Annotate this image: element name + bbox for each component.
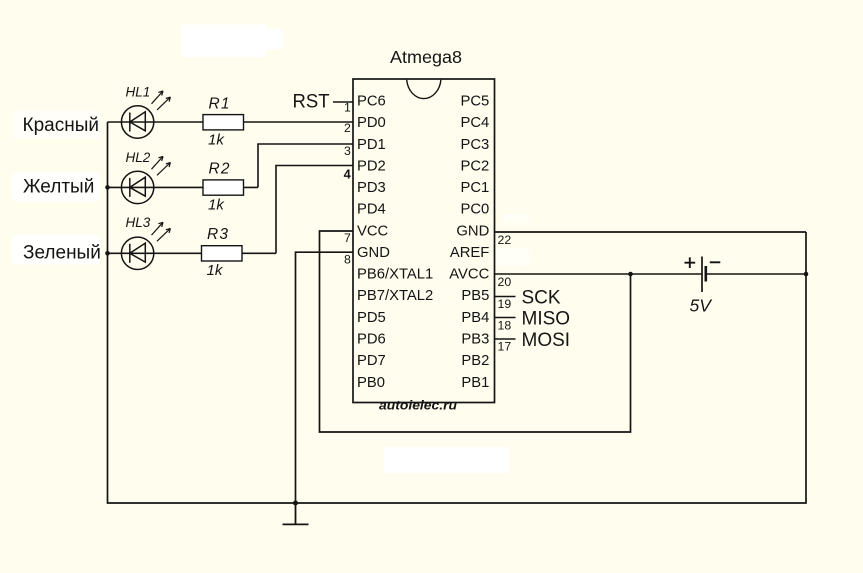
battery BT1 minus plate [704, 266, 707, 282]
svg-text:Желтый: Желтый [23, 177, 94, 198]
svg-text:PD6: PD6 [357, 332, 386, 348]
wire GND pin8 down to rail [296, 252, 354, 503]
svg-text:8: 8 [344, 252, 351, 266]
svg-text:PC5: PC5 [461, 94, 490, 110]
svg-text:22: 22 [498, 233, 512, 247]
svg-text:autoielec.ru: autoielec.ru [379, 399, 457, 413]
svg-text:Зеленый: Зеленый [23, 243, 101, 264]
LED HL3 [121, 222, 170, 269]
battery plus sign [685, 257, 696, 268]
svg-text:7: 7 [344, 231, 351, 245]
wire stub pin17 [495, 338, 516, 340]
svg-text:AVCC: AVCC [449, 267, 489, 283]
svg-text:PC2: PC2 [461, 158, 490, 174]
wire yellow riser to pin3 [258, 144, 353, 187]
svg-text:PB6/XTAL1: PB6/XTAL1 [357, 267, 433, 283]
svg-text:GND: GND [357, 245, 390, 261]
svg-text:5V: 5V [690, 296, 714, 316]
svg-text:PD0: PD0 [357, 115, 386, 131]
svg-text:Красный: Красный [23, 115, 99, 136]
resistor R1 [203, 115, 244, 130]
wire stub pin18 [495, 317, 516, 319]
svg-text:1k: 1k [207, 262, 224, 279]
svg-text:3: 3 [344, 144, 351, 158]
wire ground rail left+bottom+right [108, 122, 807, 503]
svg-text:HL2: HL2 [126, 150, 151, 165]
svg-text:SCK: SCK [522, 288, 561, 309]
IC notch [407, 80, 441, 99]
svg-text:17: 17 [498, 339, 512, 353]
svg-text:PD5: PD5 [357, 310, 386, 326]
svg-text:PD2: PD2 [357, 158, 386, 174]
svg-text:18: 18 [498, 318, 512, 332]
svg-text:PC4: PC4 [461, 115, 490, 131]
LED HL2 [121, 156, 170, 203]
wire GND pin22 to right rail [495, 231, 807, 233]
svg-text:PD7: PD7 [357, 353, 386, 369]
svg-text:PC3: PC3 [461, 137, 490, 153]
svg-text:R3: R3 [207, 226, 229, 243]
svg-text:PB7/XTAL2: PB7/XTAL2 [357, 288, 433, 304]
battery BT1 plus plate [701, 257, 703, 293]
svg-text:R2: R2 [209, 161, 231, 178]
svg-text:1k: 1k [208, 131, 225, 148]
wire red row LED1-R1-pin2 [108, 121, 354, 123]
svg-text:PC6: PC6 [357, 94, 386, 110]
svg-text:MISO: MISO [522, 309, 571, 330]
wire AVCC pin20 to battery [495, 273, 807, 275]
battery minus sign [710, 261, 721, 263]
svg-text:1k: 1k [208, 197, 225, 214]
svg-text:VCC: VCC [357, 223, 389, 239]
wire yellow row LED2-R2 [108, 186, 259, 188]
svg-text:GND: GND [456, 223, 489, 239]
wire stub pin19 [495, 296, 516, 298]
svg-text:RST: RST [293, 92, 330, 113]
wire green row LED3-R3 [108, 252, 277, 254]
svg-text:PC0: PC0 [461, 202, 490, 218]
svg-text:2: 2 [344, 121, 351, 135]
IC U1 body [353, 79, 495, 403]
svg-text:PB0: PB0 [357, 375, 385, 391]
junction dot rail/green [105, 251, 110, 256]
svg-text:R1: R1 [209, 95, 231, 112]
svg-text:AREF: AREF [450, 245, 489, 261]
svg-text:PB5: PB5 [461, 288, 489, 304]
svg-text:PD3: PD3 [357, 180, 386, 196]
svg-text:19: 19 [498, 297, 512, 311]
svg-text:HL3: HL3 [126, 215, 151, 230]
svg-text:PB3: PB3 [461, 332, 489, 348]
resistor R2 [203, 180, 244, 195]
junction dot rail/yellow [105, 185, 110, 190]
junction dot VCC/AVCC [628, 272, 633, 277]
svg-text:PB2: PB2 [461, 353, 489, 369]
svg-text:PB1: PB1 [461, 375, 489, 391]
svg-text:MOSI: MOSI [522, 330, 571, 351]
svg-text:PD1: PD1 [357, 137, 386, 153]
wire RST to pin1 [333, 101, 353, 103]
svg-text:HL1: HL1 [126, 85, 151, 100]
svg-text:PB4: PB4 [461, 310, 489, 326]
svg-text:PD4: PD4 [357, 202, 386, 218]
svg-text:PC1: PC1 [461, 180, 490, 196]
svg-text:20: 20 [498, 275, 512, 289]
wire VCC pin7 loop to battery plus [320, 231, 631, 432]
ground symbol [283, 503, 309, 524]
LED HL1 [121, 91, 170, 138]
wire green riser to pin4 [276, 166, 353, 254]
resistor R3 [202, 246, 243, 261]
junction dot battery minus/right rail [804, 272, 809, 277]
svg-text:Atmega8: Atmega8 [390, 47, 462, 67]
junction dot GND/rail [293, 501, 298, 506]
svg-text:4: 4 [344, 166, 352, 181]
svg-text:1: 1 [344, 101, 351, 115]
